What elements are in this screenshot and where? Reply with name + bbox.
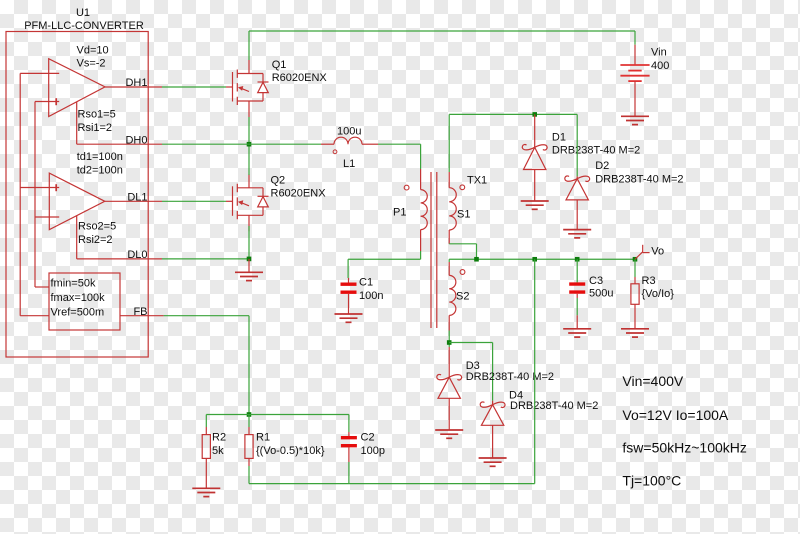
wire DH0 net to L1 — [162, 143, 321, 145]
wire Vo rail down to feedback divider — [534, 259, 536, 483]
svg-text:DL0: DL0 — [127, 249, 147, 261]
wire FB net from U1 — [164, 315, 249, 317]
ground at D4 — [479, 458, 507, 466]
diode D2 rectifier — [576, 114, 578, 176]
svg-text:S1: S1 — [457, 209, 470, 221]
svg-text:R2: R2 — [212, 432, 226, 444]
transistor Q1 — [226, 60, 269, 117]
svg-text:Vo=12V Io=100A: Vo=12V Io=100A — [622, 407, 729, 423]
node DH0 switch-node junction — [247, 142, 252, 147]
op-amp U1b inverting input wire — [35, 216, 59, 218]
svg-text:5k: 5k — [212, 445, 224, 457]
pin DL1 output lead — [105, 200, 162, 202]
transformer secondary winding S1 — [448, 172, 450, 188]
op-amp U1a plus marker — [55, 98, 57, 105]
node FB divider junction — [247, 412, 252, 417]
wire L1 to transformer primary — [378, 143, 421, 145]
diode D4 rectifier — [492, 401, 494, 405]
node junction feedback drop on Vo rail — [532, 257, 537, 262]
svg-text:Vs=-2: Vs=-2 — [77, 58, 106, 70]
wire DH1 net (gate of Q1) — [162, 86, 226, 88]
wire FB node to C2 — [249, 414, 349, 416]
svg-text:C1: C1 — [359, 277, 373, 289]
node DL0 ground junction — [247, 257, 252, 262]
wire S1 bottom to output rail — [449, 243, 476, 245]
ground at C1 — [335, 314, 363, 322]
P1 phase dot — [404, 185, 409, 190]
svg-text:Rso2=5: Rso2=5 — [78, 221, 116, 233]
svg-text:C2: C2 — [361, 432, 375, 444]
transformer TX1 core — [430, 172, 432, 328]
svg-text:Rsi2=2: Rsi2=2 — [78, 234, 113, 246]
svg-text:{(Vo-0.5)*10k}: {(Vo-0.5)*10k} — [256, 445, 325, 457]
wire primary return to C1 — [420, 251, 422, 259]
S2 phase dot — [460, 270, 465, 275]
svg-text:R3: R3 — [642, 275, 656, 287]
wire S1 top to rectifier rail — [448, 114, 450, 172]
L1 pin-1 dot — [333, 150, 337, 154]
wire FB node to R2 — [206, 414, 249, 416]
svg-text:fmin=50k: fmin=50k — [51, 278, 96, 290]
svg-text:500u: 500u — [589, 288, 613, 300]
svg-text:DH0: DH0 — [125, 134, 147, 146]
ground at R2 — [192, 488, 220, 496]
ground at D2 — [563, 230, 591, 238]
ground at R3 — [621, 329, 649, 337]
net wire left rail B (non-inv of U1a to inverting of U1b to box) — [34, 102, 36, 288]
ground at D1 — [521, 201, 549, 209]
wire S2 bottom net — [448, 331, 450, 348]
svg-text:DRB238T-40 M=2: DRB238T-40 M=2 — [510, 400, 598, 412]
Vo output terminal marker — [635, 252, 643, 259]
svg-text:100p: 100p — [361, 445, 385, 457]
resistor R1 feedback upper — [248, 427, 250, 435]
pin DH1 output lead — [105, 86, 162, 88]
wire Q2 source to DL0 node — [248, 226, 250, 259]
wire Vin top rail — [249, 30, 635, 32]
svg-text:DL1: DL1 — [127, 192, 147, 204]
svg-text:td2=100n: td2=100n — [77, 165, 123, 177]
ground at Vin — [621, 116, 649, 124]
svg-text:S2: S2 — [456, 291, 469, 303]
transformer secondary winding S2 — [448, 259, 450, 262]
node junction R3 and Vo tap — [633, 257, 638, 262]
svg-text:D2: D2 — [595, 160, 609, 172]
svg-text:Rsi1=2: Rsi1=2 — [78, 122, 113, 134]
net wire left rail A (inverting of U1a to non-inv of U1b to Vref) — [19, 73, 21, 315]
pin DH0 internal branch — [76, 102, 78, 144]
pin FB lead — [120, 315, 164, 317]
resistor R3 load — [634, 259, 636, 277]
ground at D3 — [435, 430, 463, 438]
op-amp U1a non-inverting input wire — [35, 101, 59, 103]
voltage source Vin battery — [634, 45, 636, 65]
op-amp U1a (high-side comparator) — [49, 59, 105, 117]
svg-text:Vin: Vin — [651, 47, 667, 59]
wire DL1 net (gate of Q2) — [162, 200, 226, 202]
wire R1 top lead — [248, 415, 250, 428]
svg-text:Vd=10: Vd=10 — [77, 44, 109, 56]
pin DL0 internal branch — [76, 216, 78, 259]
svg-text:TX1: TX1 — [467, 175, 487, 187]
S1 phase dot — [460, 185, 465, 190]
resistor R2 feedback lower — [205, 427, 207, 435]
U1 behavioural controller box — [6, 32, 148, 358]
node junction S1-bottom on Vo rail — [474, 257, 479, 262]
svg-text:PFM-LLC-CONVERTER: PFM-LLC-CONVERTER — [24, 20, 144, 32]
svg-text:R6020ENX: R6020ENX — [271, 187, 327, 199]
capacitor C1 resonant — [348, 278, 350, 283]
node S2 bottom junction — [447, 340, 452, 345]
ground at Q2 source — [235, 272, 263, 280]
svg-text:DH1: DH1 — [125, 77, 147, 89]
U1 oscillator parameter box — [49, 273, 120, 330]
op-amp U1b (low-side comparator) — [49, 173, 105, 230]
svg-text:DRB238T-40 M=2: DRB238T-40 M=2 — [595, 174, 683, 186]
capacitor C2 feedback — [348, 432, 350, 436]
wire DL0 net — [162, 258, 249, 260]
svg-text:FB: FB — [133, 306, 147, 318]
Q2 source ground lead — [248, 259, 250, 272]
svg-text:Tj=100°C: Tj=100°C — [622, 473, 681, 489]
node D1 junction on S1 top net — [532, 112, 537, 117]
svg-text:td1=100n: td1=100n — [77, 151, 123, 163]
svg-text:R1: R1 — [256, 432, 270, 444]
svg-text:Vo: Vo — [651, 246, 664, 258]
transistor Q2 — [226, 174, 269, 231]
svg-text:400: 400 — [651, 60, 669, 72]
transformer primary winding P1 — [420, 169, 422, 190]
wire switch node vertical (Q1 source to Q2 drain) — [248, 117, 250, 175]
svg-text:L1: L1 — [343, 158, 355, 170]
inductor L1 — [321, 143, 334, 145]
svg-text:P1: P1 — [393, 207, 406, 219]
svg-text:fmax=100k: fmax=100k — [51, 292, 106, 304]
svg-text:Vin=400V: Vin=400V — [622, 373, 684, 389]
diode D1 rectifier — [534, 114, 536, 147]
node junction C3 on Vo rail — [575, 257, 580, 262]
svg-text:Rso1=5: Rso1=5 — [78, 109, 116, 121]
ground at C3 — [563, 329, 591, 337]
svg-text:100u: 100u — [337, 126, 361, 138]
diode D3 rectifier — [448, 347, 450, 377]
op-amp U1b plus marker — [55, 184, 57, 191]
svg-text:Vref=500m: Vref=500m — [51, 306, 105, 318]
svg-text:D1: D1 — [552, 132, 566, 144]
op-amp U1b non-inverting input wire — [20, 187, 59, 189]
wire output mid rail Vo net — [449, 258, 635, 260]
svg-text:Q1: Q1 — [272, 59, 287, 71]
svg-text:U1: U1 — [76, 7, 90, 19]
op-amp U1a inverting input wire — [20, 72, 59, 74]
svg-text:DRB238T-40 M=2: DRB238T-40 M=2 — [552, 144, 640, 156]
svg-text:DRB238T-40 M=2: DRB238T-40 M=2 — [466, 371, 554, 383]
svg-text:100n: 100n — [359, 290, 383, 302]
capacitor C3 output — [576, 259, 578, 282]
wire S2 bottom to D4 — [449, 342, 492, 344]
svg-text:C3: C3 — [589, 275, 603, 287]
svg-text:R6020ENX: R6020ENX — [272, 72, 328, 84]
svg-text:{Vo/Io}: {Vo/Io} — [642, 288, 675, 300]
svg-text:fsw=50kHz~100kHz: fsw=50kHz~100kHz — [622, 440, 747, 456]
svg-text:Q2: Q2 — [271, 174, 286, 186]
